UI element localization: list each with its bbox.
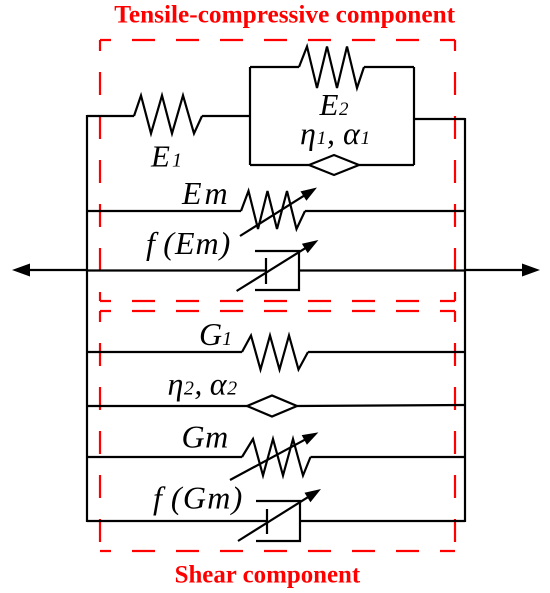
wire: left rail to damper piston f(Em) [87,269,266,271]
arrow across spring Gm [230,432,318,480]
dashpot diamond eta2,alpha2 [247,396,297,417]
spring E2 [299,47,364,89]
arrow across damper f(Em) [237,240,319,291]
wire: left rail to variable spring Gm [87,456,242,458]
spring G1 [242,336,308,370]
dashpot diamond eta1,alpha1 [309,155,359,175]
wire: left rail to spring G1 [87,351,242,353]
arrow across spring Em [240,188,317,237]
left rail wire [86,115,88,522]
wire: damper f(Em) to right rail [299,269,465,271]
svg-text:Gm: Gm [182,419,229,455]
wire: box top left segment [250,66,299,68]
wire: variable spring Em to right rail [305,210,465,212]
wire: left rail to damper piston f(Gm) [87,520,267,522]
svg-text:η1, α1: η1, α1 [300,115,371,151]
wire: box top right segment [364,66,414,68]
right rail wire [464,118,466,522]
damper f(Em) cylinder [255,251,299,290]
damper f(Gm) piston [266,509,268,534]
red dashed box: tensile-compressive region [100,40,455,301]
svg-text:Tensile-compressive component: Tensile-compressive component [114,1,455,29]
left load arrow [12,264,87,277]
wire: box bottom left segment [250,164,309,166]
damper f(Gm) cylinder [256,501,300,541]
red dashed box: shear region [100,311,455,551]
damper f(Em) piston [265,258,267,284]
variable spring Em [241,191,305,229]
parallel box left side [249,67,251,165]
variable spring Gm [242,439,311,476]
wire: box to right rail [414,118,465,120]
wire: spring E1 to parallel box [202,115,250,117]
right load arrow [465,264,540,277]
wire: left rail to spring E1 [87,115,134,117]
wire: damper f(Gm) to right rail [300,520,465,522]
wire: box bottom right segment [359,164,414,166]
svg-text:Shear component: Shear component [175,561,361,588]
wire: left rail to variable spring Em [87,210,241,212]
svg-text:Em: Em [181,175,231,211]
wire: diamond eta2,alpha2 to right rail [297,405,465,406]
svg-text:η2, α2: η2, α2 [168,366,238,402]
parallel box right side [413,67,415,165]
spring E1 [134,96,202,134]
arrow across damper f(Gm) [238,489,321,541]
svg-text:f (Gm): f (Gm) [153,480,244,516]
svg-text:f (Em): f (Em) [146,225,231,261]
wire: left rail to diamond eta2,alpha2 [87,405,247,407]
wire: spring G1 to right rail [308,351,465,353]
wire: variable spring Gm to right rail [311,456,466,458]
